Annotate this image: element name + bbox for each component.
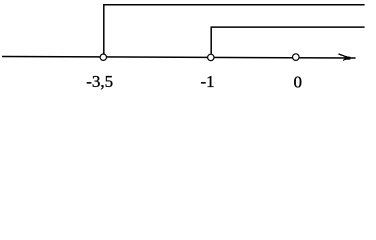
svg-text:0: 0 bbox=[294, 72, 303, 91]
svg-text:-3,5: -3,5 bbox=[86, 72, 113, 91]
svg-text:-1: -1 bbox=[201, 72, 215, 91]
